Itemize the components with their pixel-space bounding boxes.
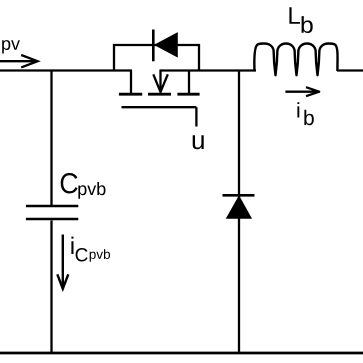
inductor Lb	[254, 44, 337, 76]
MOSFET Q gate lead	[195, 107, 197, 126]
label pvb subscript of Cpvb	[78, 182, 105, 199]
diode D triangle	[227, 196, 252, 218]
label u (gate signal)	[193, 135, 204, 149]
label pvb subscript of iCpvb	[90, 249, 110, 262]
label L of Lb	[289, 7, 300, 24]
label i_pv subscript "pv"	[2, 40, 20, 53]
diode D cathode bar	[223, 194, 255, 197]
wire: capacitor bottom branch	[50, 221, 52, 354]
MOSFET Q channel bars	[119, 93, 200, 96]
label i of iCpvb	[71, 237, 73, 254]
body diode cathode bar	[152, 30, 155, 62]
wire: drain to inductor	[160, 69, 257, 71]
wire: diode loop over MOSFET	[114, 45, 199, 71]
wire: main top left	[0, 69, 132, 71]
wire: diode branch vertical	[238, 70, 240, 354]
capacitor Cpvb bottom plate	[26, 218, 78, 221]
MOSFET Q drain lead	[188, 70, 190, 94]
MOSFET Q gate plate	[122, 106, 197, 108]
label C of Cpvb	[61, 173, 78, 194]
label b subscript of Lb	[302, 16, 313, 33]
arrow i_pv	[0, 55, 38, 67]
arrow i_b	[285, 87, 319, 96]
MOSFET Q source lead	[130, 70, 132, 94]
wire: capacitor top branch	[50, 70, 52, 206]
MOSFET Q body arrow	[153, 70, 168, 92]
arrow i_Cpvb	[57, 235, 68, 289]
label C subscript of iCpvb	[76, 248, 88, 262]
wire: bottom rail	[0, 352, 363, 355]
body diode triangle	[155, 33, 177, 57]
label b subscript of ib	[304, 110, 313, 125]
label i of ib	[297, 102, 299, 117]
capacitor Cpvb top plate	[26, 205, 78, 208]
wire: inductor right to edge	[337, 69, 363, 71]
